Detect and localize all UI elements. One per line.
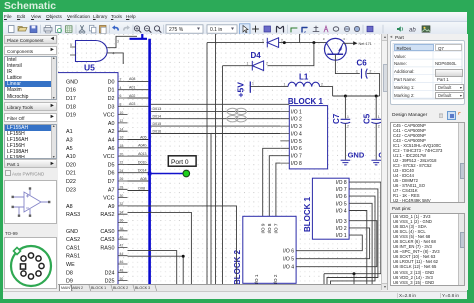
preview <box>56 26 62 33</box>
svg-text:D7: D7 <box>108 179 115 185</box>
svg-text:I/O 1: I/O 1 <box>291 109 302 115</box>
svg-text:A0: A0 <box>108 121 115 127</box>
svg-text:2: 2 <box>370 69 372 73</box>
svg-text:BLOCK 1: BLOCK 1 <box>303 196 312 232</box>
svg-text:28: 28 <box>120 186 124 190</box>
AND gate U5 <box>70 41 107 62</box>
wire emitter down to C6 rail <box>335 54 359 73</box>
long vertical wire 4 <box>210 134 212 285</box>
svg-text:1: 1 <box>356 69 358 73</box>
svg-text:1: 1 <box>284 83 286 87</box>
svg-text:RAS1: RAS1 <box>66 254 80 260</box>
D4 pin numbers <box>247 61 269 65</box>
svg-text:10: 10 <box>120 111 124 115</box>
block1 rotated body <box>303 178 349 239</box>
svg-text:VCC: VCC <box>103 196 114 202</box>
svg-text:D016: D016 <box>153 129 162 133</box>
svg-text:I/O 8: I/O 8 <box>291 161 302 167</box>
svg-text:CAS3: CAS3 <box>100 237 114 243</box>
svg-text:8: 8 <box>120 103 122 107</box>
wire from U5 pin 4 <box>107 53 123 64</box>
svg-text:I/O 5: I/O 5 <box>336 201 347 207</box>
memory chip U3 pin names and numbers <box>66 78 123 285</box>
U5 pin numbers <box>70 40 119 56</box>
svg-text:44: 44 <box>120 252 124 256</box>
net labels on block1 wires <box>153 107 162 133</box>
svg-text:I/O 4: I/O 4 <box>291 131 302 137</box>
svg-text:CAS1: CAS1 <box>66 245 80 251</box>
svg-text:CAS2: CAS2 <box>66 237 80 243</box>
svg-text:A05: A05 <box>140 135 146 139</box>
separators <box>41 25 384 33</box>
svg-text:L1: L1 <box>299 73 309 82</box>
svg-text:5: 5 <box>70 43 72 47</box>
paste <box>100 26 107 34</box>
svg-text:I/O 9: I/O 9 <box>260 223 265 233</box>
svg-text:2: 2 <box>120 78 122 82</box>
svg-text:42: 42 <box>120 244 124 248</box>
svg-text:VCC: VCC <box>103 154 114 160</box>
svg-text:I/O 7: I/O 7 <box>336 187 347 193</box>
long vertical wire 2 <box>215 34 217 284</box>
redo <box>123 25 130 30</box>
wire diode D3 to junction <box>279 42 327 44</box>
memory chip U3 pin stubs <box>118 81 128 280</box>
bus tap junction <box>148 172 152 176</box>
svg-text:4: 4 <box>113 51 115 55</box>
block1 pin names <box>291 109 302 167</box>
svg-text:4: 4 <box>120 86 122 90</box>
top net wire to diode D3 <box>207 42 264 44</box>
svg-text:D6: D6 <box>108 171 115 177</box>
svg-text:I/O 6: I/O 6 <box>283 249 294 255</box>
svg-text:2: 2 <box>266 61 268 65</box>
svg-text:Port 0: Port 0 <box>171 159 189 166</box>
block2 right pin names <box>283 249 294 271</box>
bus tool <box>302 28 307 33</box>
bottom rail wire <box>324 274 381 284</box>
svg-text:1: 1 <box>262 39 264 43</box>
svg-text:A01: A01 <box>129 86 135 90</box>
capacitor C5 <box>363 96 381 160</box>
svg-text:12: 12 <box>120 119 124 123</box>
svg-text:3: 3 <box>117 40 119 44</box>
svg-text:CAS0: CAS0 <box>100 229 114 235</box>
svg-text:GND: GND <box>66 79 78 85</box>
svg-text:46: 46 <box>120 260 124 264</box>
svg-text:6: 6 <box>120 94 122 98</box>
capacitor C6 <box>362 69 368 79</box>
svg-text:A2: A2 <box>108 129 115 135</box>
svg-text:A6: A6 <box>108 146 115 152</box>
open <box>18 27 27 32</box>
svg-text:c: c <box>323 37 325 41</box>
svg-text:RAS0: RAS0 <box>100 245 114 251</box>
chip lower wires with corners <box>128 206 237 284</box>
transistor Q7 <box>325 38 347 60</box>
print <box>44 28 52 32</box>
C6 pin numbers <box>356 69 372 73</box>
svg-text:0.1 in: 0.1 in <box>210 27 222 33</box>
svg-text:C6: C6 <box>357 58 368 67</box>
zoom out <box>144 26 149 31</box>
svg-text:14: 14 <box>120 127 124 131</box>
svg-text:I/O 5: I/O 5 <box>283 257 294 263</box>
svg-text:C7: C7 <box>332 113 341 124</box>
svg-text:1: 1 <box>252 82 254 86</box>
svg-text:A8: A8 <box>66 204 73 210</box>
inductor L1 <box>288 82 320 86</box>
junction at C5 tap <box>375 95 378 98</box>
junction at C7 tap <box>344 95 347 98</box>
tool8 <box>367 26 373 32</box>
svg-text:D19: D19 <box>66 113 76 119</box>
svg-text:A4: A4 <box>108 138 115 144</box>
cap rail wire <box>333 95 380 97</box>
svg-text:I/O 3: I/O 3 <box>336 219 347 225</box>
ground symbol under C5 <box>371 160 381 165</box>
svg-text:1: 1 <box>378 115 380 119</box>
wire L1 to cap rail <box>320 87 333 96</box>
svg-text:U5: U5 <box>84 63 95 73</box>
svg-text:2: 2 <box>347 125 349 129</box>
svg-text:D22: D22 <box>66 179 76 185</box>
long vertical wire 3 <box>222 66 224 284</box>
zoom in <box>134 26 139 31</box>
svg-text:I/O 4: I/O 4 <box>336 209 347 215</box>
svg-text:D015: D015 <box>153 122 162 126</box>
svg-text:D014: D014 <box>138 169 147 173</box>
svg-text:D8: D8 <box>66 270 73 276</box>
wire A02 chip to bus <box>128 94 149 98</box>
svg-text:1: 1 <box>347 115 349 119</box>
wires bus to block1 pins <box>151 104 289 133</box>
cursor tool selected <box>240 24 251 35</box>
bus top cap <box>130 34 148 39</box>
svg-text:BLOCK 2: BLOCK 2 <box>233 249 242 284</box>
svg-text:A5: A5 <box>66 146 73 152</box>
wire junction up to canvas top <box>299 34 301 43</box>
wire D4 pin1 to vertical wire <box>223 65 253 67</box>
svg-text:34: 34 <box>120 210 124 214</box>
svg-text:D21: D21 <box>66 171 76 177</box>
zoom window <box>154 26 159 31</box>
green node of Port 0 <box>183 170 190 177</box>
svg-text:50: 50 <box>120 277 124 281</box>
grid icon <box>66 26 73 33</box>
gray crossing loops <box>227 108 247 122</box>
block2 right pin stubs <box>296 251 305 267</box>
wire from U5 output <box>107 36 137 47</box>
wire +5V to L1 <box>250 86 288 88</box>
svg-text:I/O 1: I/O 1 <box>254 274 259 284</box>
memory chip U3 body <box>30 73 118 303</box>
L1 pin numbers <box>284 83 324 87</box>
junction on bottom rail <box>353 272 356 284</box>
tool7 <box>354 26 359 31</box>
copy <box>90 25 94 31</box>
wires block1 pins 6-8 down to block2 <box>263 148 281 207</box>
svg-text:D01b: D01b <box>138 160 147 164</box>
svg-text:22: 22 <box>120 161 124 165</box>
image tool <box>422 26 430 32</box>
svg-text:20: 20 <box>120 152 124 156</box>
nested wires block1 rotated to block2 right pins <box>306 221 377 267</box>
svg-text:275 %: 275 % <box>169 27 184 33</box>
svg-text:D014: D014 <box>153 115 162 119</box>
new <box>9 26 15 33</box>
TO-99 package preview <box>4 237 57 289</box>
svg-text:D4: D4 <box>251 51 262 60</box>
svg-text:BLOCK 1: BLOCK 1 <box>288 97 324 106</box>
wire D08 chip to bus <box>128 186 149 190</box>
block1 rotated pin names <box>336 180 347 239</box>
svg-text:1: 1 <box>247 61 249 65</box>
wire tool <box>291 28 297 32</box>
wire C6 to right edge and down <box>367 74 380 96</box>
grid combo <box>207 25 237 33</box>
ground symbol under C7 <box>341 160 351 165</box>
undo <box>112 25 119 30</box>
svg-text:I/O 6: I/O 6 <box>291 146 302 152</box>
svg-text:D3: D3 <box>108 104 115 110</box>
svg-text:2: 2 <box>321 83 323 87</box>
vertical bus <box>148 39 151 284</box>
svg-text:16: 16 <box>120 136 124 140</box>
wire A01 chip to bus <box>128 86 149 90</box>
svg-text:I/O 2: I/O 2 <box>336 226 347 232</box>
svg-text:A08: A08 <box>129 77 135 81</box>
save <box>30 26 37 33</box>
speaker <box>397 26 401 32</box>
+5V power port <box>236 82 255 98</box>
svg-text:GND: GND <box>348 150 365 159</box>
svg-text:D18: D18 <box>66 104 76 110</box>
svg-text:D16: D16 <box>66 88 76 94</box>
svg-text:38: 38 <box>120 227 124 231</box>
svg-text:I/O 2: I/O 2 <box>273 274 278 284</box>
svg-text:A08: A08 <box>140 177 146 181</box>
block2 body <box>233 216 296 285</box>
svg-text:c: c <box>344 37 346 41</box>
svg-text:ab: ab <box>409 28 416 34</box>
svg-text:I/O 2: I/O 2 <box>291 117 302 123</box>
svg-text:I/O 3: I/O 3 <box>291 124 302 130</box>
svg-text:D2: D2 <box>108 96 115 102</box>
diode D3 <box>267 38 278 48</box>
svg-text:I/O 5: I/O 5 <box>291 139 302 145</box>
svg-text:A1: A1 <box>66 129 73 135</box>
svg-text:C5: C5 <box>363 113 372 124</box>
svg-text:A10: A10 <box>66 154 76 160</box>
wire collector with arrow to Net 171 <box>343 41 358 45</box>
scale combo <box>166 25 203 33</box>
svg-text:I/O 7: I/O 7 <box>291 154 302 160</box>
junction node at D4 branch <box>312 41 315 44</box>
block1 rectangle <box>288 97 328 169</box>
svg-text:48: 48 <box>120 269 124 273</box>
svg-text:D0: D0 <box>108 79 115 85</box>
svg-text:D013: D013 <box>153 107 162 111</box>
tool4 <box>324 26 328 32</box>
svg-text:I/O 1: I/O 1 <box>336 233 347 239</box>
svg-text:I/O 8: I/O 8 <box>336 180 347 186</box>
nested wires block1 rotated to bottom rail <box>327 182 381 284</box>
tool5 <box>333 27 339 31</box>
op-amp preview U1 <box>4 180 57 224</box>
net labels mid group <box>138 135 147 181</box>
tool3 <box>313 26 319 32</box>
svg-text:VCC: VCC <box>103 113 114 119</box>
block1 pin stubs <box>280 111 289 163</box>
block2 top pin stubs <box>263 208 276 217</box>
svg-text:D08: D08 <box>138 186 145 190</box>
wire A03 chip to bus <box>128 102 149 106</box>
svg-text:A9: A9 <box>108 204 115 210</box>
diode D3 pin numbers <box>262 39 283 43</box>
svg-text:A04b: A04b <box>138 144 146 148</box>
wire bus to port node <box>151 173 184 175</box>
wires chip to bus mid group <box>128 140 149 182</box>
port marker Port 0 <box>168 156 196 166</box>
svg-text:D1: D1 <box>108 88 115 94</box>
svg-text:A02: A02 <box>129 94 135 98</box>
svg-text:D24: D24 <box>105 270 115 276</box>
svg-text:D5: D5 <box>108 162 115 168</box>
tool6 <box>344 26 349 31</box>
svg-text:RAS2: RAS2 <box>100 212 114 218</box>
junction node at diode rail <box>283 41 286 44</box>
svg-text:30: 30 <box>120 194 124 198</box>
wire A00 chip to bus <box>128 77 149 81</box>
svg-text:A013: A013 <box>138 152 146 156</box>
svg-text:36: 36 <box>120 219 124 223</box>
svg-text:D17: D17 <box>66 96 76 102</box>
svg-text:I/O 4: I/O 4 <box>283 265 294 271</box>
capacitor C7 <box>332 96 350 160</box>
svg-text:2: 2 <box>378 125 380 129</box>
svg-text:GND: GND <box>66 229 78 235</box>
svg-text:2: 2 <box>281 39 283 43</box>
svg-text:26: 26 <box>120 177 124 181</box>
find <box>277 26 284 32</box>
svg-text:D23: D23 <box>66 187 76 193</box>
svg-text:A3: A3 <box>66 138 73 144</box>
long vertical wire 1 <box>206 43 208 284</box>
svg-text:I/O 6: I/O 6 <box>336 194 347 200</box>
svg-text:Net 171: Net 171 <box>359 42 372 46</box>
svg-text:WE: WE <box>66 262 75 268</box>
plus tool <box>253 26 259 32</box>
part tool <box>264 26 271 32</box>
svg-text:A7: A7 <box>108 187 115 193</box>
svg-text:RAS3: RAS3 <box>66 212 80 218</box>
block2 bottom pin names <box>254 274 278 284</box>
svg-text:32: 32 <box>120 202 124 206</box>
cut <box>81 26 84 32</box>
diode D4 <box>252 61 263 71</box>
svg-text:D20: D20 <box>66 162 76 168</box>
svg-text:40: 40 <box>120 235 124 239</box>
svg-text:24: 24 <box>120 169 124 173</box>
junction on chip lower wire <box>182 255 185 258</box>
svg-text:+5V: +5V <box>236 82 246 98</box>
block2 top pin names <box>260 223 278 233</box>
svg-text:A03: A03 <box>129 102 135 106</box>
transistor pin labels <box>323 37 346 41</box>
svg-text:18: 18 <box>120 144 124 148</box>
svg-text:I/O 7: I/O 7 <box>274 223 279 233</box>
svg-text:I/O 8: I/O 8 <box>267 223 272 233</box>
wire down to D4 <box>268 43 314 66</box>
